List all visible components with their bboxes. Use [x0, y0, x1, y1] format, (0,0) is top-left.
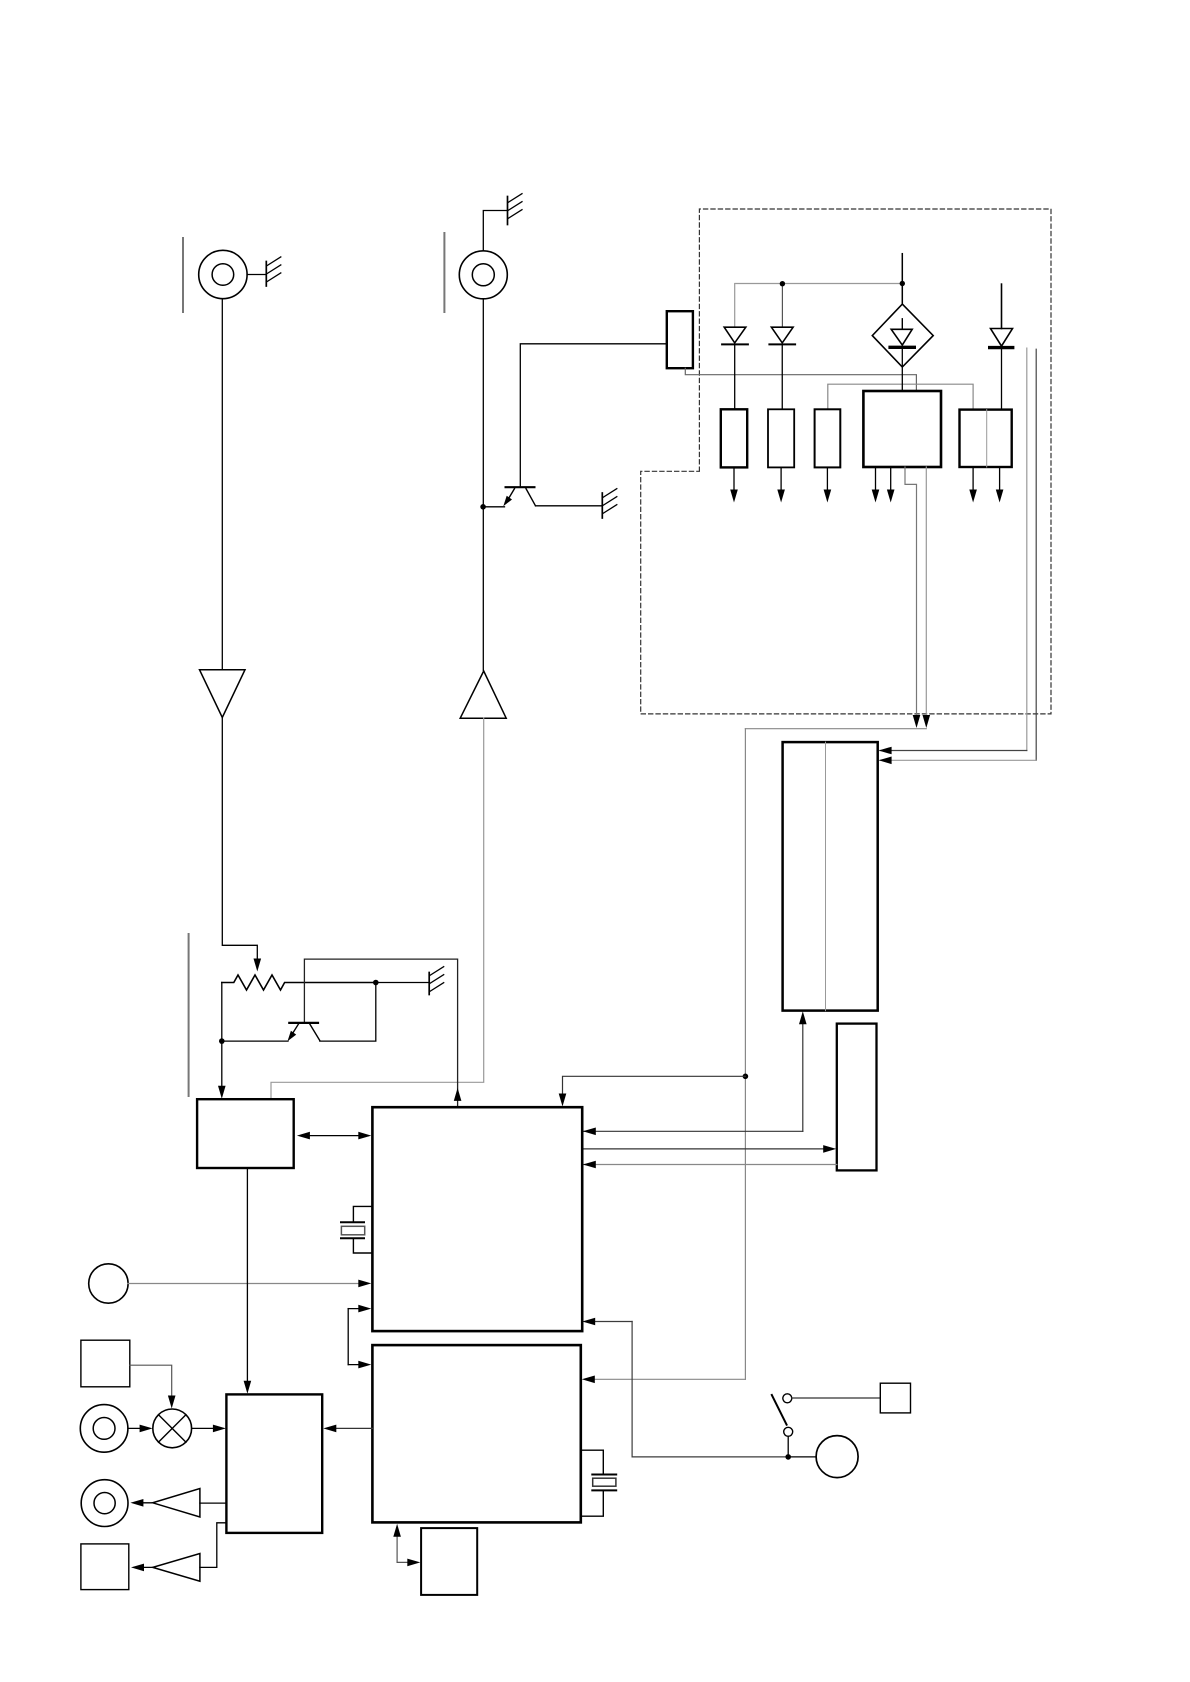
amplifier A3 — [153, 1489, 200, 1518]
wire U1 out to U5 (gray) — [685, 368, 916, 391]
connector J3 — [80, 1405, 128, 1453]
wire R1 to AGC node — [221, 983, 223, 1042]
power-supply block boundary (dashed) — [641, 209, 1051, 714]
diode D2 — [771, 327, 793, 343]
wire bus to display b — [1035, 349, 1037, 760]
bracket wire to IC1/IC2 — [348, 1308, 366, 1310]
U5 output arrow b — [890, 467, 892, 491]
controller IC1 — [372, 1107, 582, 1331]
wire IC2 to IF block — [327, 1427, 372, 1429]
IF block — [226, 1394, 322, 1533]
wire A4 to S2 — [136, 1566, 153, 1568]
diode D4 — [1001, 284, 1003, 328]
wire A1 to R1 wiper — [222, 718, 257, 962]
U6 output arrow a — [972, 467, 974, 491]
wire node E1 to amp A2 — [482, 507, 484, 671]
transistor Q1 — [506, 486, 535, 488]
crystal X2 — [581, 1450, 604, 1474]
wire bus to display a — [1026, 348, 1028, 750]
node E1 (Q1 emitter junction) — [480, 504, 486, 510]
supply feed horizontal — [745, 728, 926, 730]
wire U4 top to U6 top (gray) — [828, 384, 973, 409]
resistor R1 (tuning) — [222, 975, 374, 990]
amplifier A1 (RX) — [200, 670, 246, 718]
antenna plate bar (tuner) — [188, 934, 190, 1096]
wire supply to IC2 — [586, 1378, 746, 1380]
transistor Q2 base wire — [304, 959, 457, 1107]
wire P1 to IC1 top — [563, 1076, 746, 1100]
U3 output arrow — [780, 467, 782, 491]
amplifier A2 (TX) — [460, 671, 506, 718]
diode D1 — [724, 327, 746, 343]
switch SW1 — [783, 1394, 792, 1403]
wire A2 to control box (gray) — [271, 718, 484, 1099]
signal IC2 — [372, 1345, 580, 1522]
wire to speaker — [790, 1456, 816, 1458]
display / LCD block — [783, 742, 878, 1011]
wire Q2 collector to R1 — [320, 983, 376, 1042]
ground at R1 — [428, 973, 430, 995]
speaker circle — [816, 1436, 858, 1478]
tuner control block — [197, 1099, 294, 1168]
crystal X1 — [353, 1206, 372, 1222]
ground at J1 — [247, 274, 265, 276]
wire J3 to mixer — [128, 1427, 149, 1429]
U2 output arrow — [733, 467, 735, 491]
earphone square — [880, 1383, 910, 1413]
node R1-collector — [373, 980, 379, 986]
supply bus wire — [736, 283, 903, 285]
node SW1 common — [785, 1454, 791, 1460]
wire S1 to mixer — [130, 1365, 172, 1402]
regulator U1 (input rect) — [667, 311, 693, 368]
ground at Q1 — [601, 493, 603, 518]
wire IF to A4 — [200, 1523, 227, 1568]
DSP block — [421, 1528, 477, 1595]
wire IC2 to DSP — [396, 1535, 398, 1563]
ground at J2 — [483, 211, 507, 251]
connector J1 (antenna jack) — [199, 250, 247, 298]
memory block — [837, 1024, 877, 1171]
connector J2 (TX jack) — [459, 251, 507, 299]
wire mixer to IF block — [192, 1427, 222, 1429]
regulator U4 — [815, 409, 841, 467]
bridge rectifier D3 (diamond) — [872, 304, 933, 367]
wire A3 to J4 — [136, 1502, 153, 1504]
transistor Q2 — [289, 1022, 318, 1024]
node B2 — [900, 281, 905, 286]
wire stub above bridge — [901, 254, 903, 304]
antenna plate bar (J1) — [182, 238, 184, 312]
oscillator square S1 — [81, 1340, 130, 1387]
wire IC1 to memory — [582, 1148, 832, 1150]
wire switch to square — [792, 1397, 881, 1399]
U4 output arrow — [826, 467, 828, 491]
regulator U3 — [768, 409, 794, 467]
output square S2 — [81, 1544, 129, 1590]
wire J2 down to node E1 — [482, 299, 484, 507]
input sensor circle — [89, 1264, 128, 1303]
connector J4 — [81, 1480, 128, 1527]
supply feed vertical — [744, 729, 746, 1380]
amplifier A4 — [153, 1554, 200, 1582]
regulator U6 — [960, 410, 1012, 467]
bus control to IC1 (bidirectional) — [301, 1135, 369, 1137]
regulator U2 — [721, 409, 747, 467]
mixer M1 — [153, 1409, 192, 1448]
node A1 (AGC) — [219, 1038, 225, 1044]
U6 output arrow b — [999, 467, 1001, 491]
wire AGC to control box — [221, 1041, 223, 1092]
wire control to IF block — [246, 1168, 248, 1388]
antenna plate bar (J2) — [443, 233, 445, 312]
U5 output arrow a — [875, 467, 877, 491]
node P1 — [743, 1074, 749, 1080]
wire Q1 collector to ground — [536, 505, 602, 507]
node B1 — [780, 281, 785, 286]
bus IC1 to display — [583, 1130, 803, 1132]
wire IC1 to switch — [587, 1321, 633, 1323]
wire IF to A3 — [200, 1502, 227, 1504]
wire memory to IC1 (gray) — [583, 1164, 837, 1166]
transistor Q1 base wire — [520, 344, 667, 487]
regulator U5 (main) — [863, 391, 941, 467]
wire sensor to IC1 — [128, 1283, 366, 1285]
wire J1 to amp A1 — [221, 299, 223, 670]
supply rail wire b (U5 to logic) — [925, 467, 927, 721]
supply rail wire a (U5 to logic) — [905, 467, 917, 721]
